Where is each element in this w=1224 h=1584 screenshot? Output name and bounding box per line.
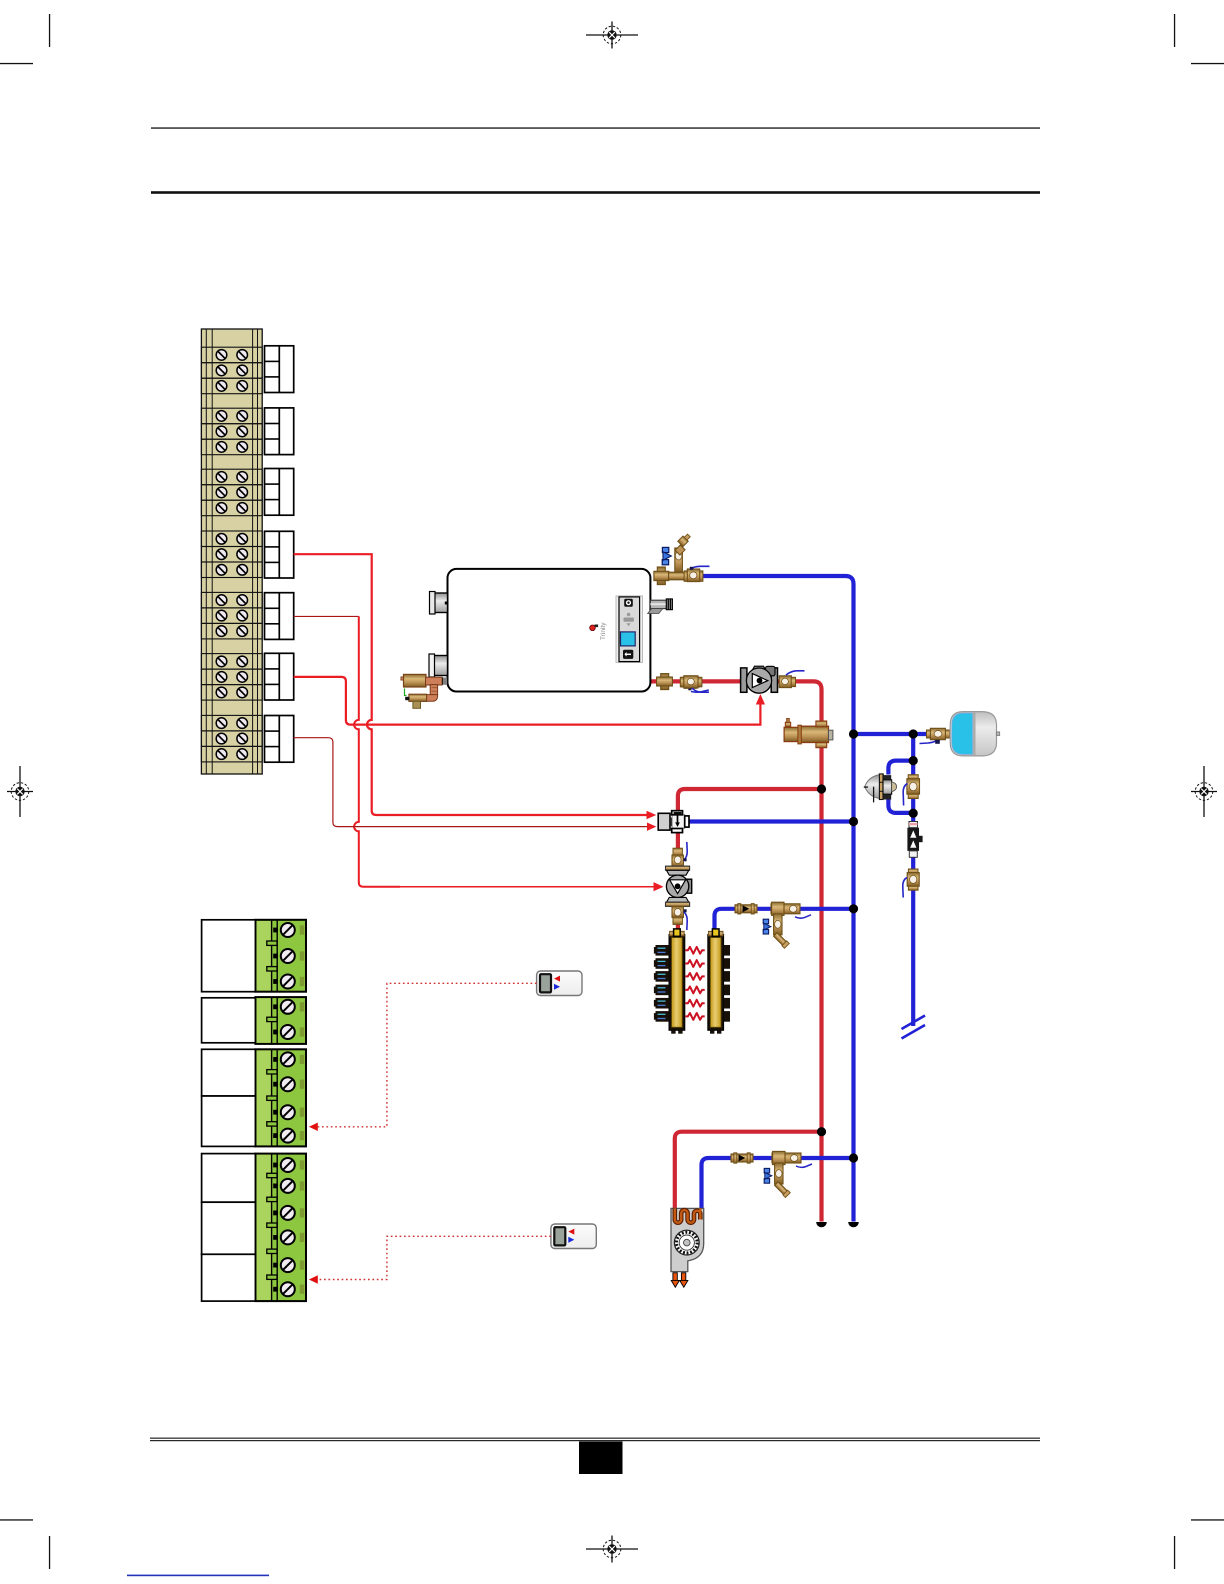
wire zone2 valve vertical xyxy=(354,616,400,886)
boiler control panel xyxy=(616,596,643,663)
expansion tank xyxy=(950,712,1000,756)
zone valve ZV1 actuator xyxy=(658,813,670,830)
red supply branch to fan coil xyxy=(675,1132,822,1209)
terminal group 5 rows and screws xyxy=(201,592,262,639)
wire zone1 pump (box J4 to boiler pump) xyxy=(294,554,647,815)
connector box J5 xyxy=(265,593,294,640)
blue branch manifold return xyxy=(715,909,854,930)
boiler exhaust stub right xyxy=(648,599,673,614)
valve handle annotation top xyxy=(690,566,710,570)
pipe junction node (913.2,760.6) xyxy=(909,756,918,765)
red supply branch to zone valve xyxy=(678,789,822,812)
pump union left xyxy=(680,676,702,688)
connector box J2 xyxy=(265,408,294,455)
panel button xyxy=(623,650,633,659)
footer double rule xyxy=(150,1438,1040,1442)
connector box J3 xyxy=(265,469,294,516)
radiant loops symbol xyxy=(685,947,704,1020)
registration mark right edge xyxy=(1191,766,1217,817)
thermostat terminal block X2 xyxy=(255,997,306,1044)
pressure reducing fill valve xyxy=(864,774,897,803)
zone valve ZV1 body xyxy=(670,811,689,833)
wire zone2 valve (box J5 thin leg) xyxy=(294,615,359,617)
expansion tank valve handle xyxy=(920,740,940,744)
corner crop mark top-right xyxy=(1174,14,1224,64)
return manifold loop stubs xyxy=(724,945,730,1022)
corner crop mark top-left xyxy=(0,14,50,64)
thermostat terminal block X3 xyxy=(255,1049,306,1146)
thermostat T1 wire arrow xyxy=(309,1123,318,1131)
circulator pump P1 xyxy=(741,666,778,693)
boiler body xyxy=(448,569,651,692)
blue cold water drop xyxy=(911,734,915,1026)
pipe junction node (913.2,734) xyxy=(909,729,918,738)
mixing valve union top xyxy=(672,848,683,866)
connector box J7 xyxy=(265,716,294,763)
panel burner icon xyxy=(624,613,634,627)
wire pump arrow xyxy=(756,694,765,705)
wire boiler pump (box J6 to pump arrow) xyxy=(294,677,761,725)
footer blue underline xyxy=(127,1575,269,1577)
boiler vent stub lower-left xyxy=(429,654,448,677)
pump union right xyxy=(779,676,795,688)
terminal group 7 rows and screws xyxy=(201,715,262,762)
panel indicator round xyxy=(624,599,633,607)
blue branch zone valve return xyxy=(689,819,854,823)
check valve fan coil return xyxy=(731,1153,753,1163)
terminal strip TB1 body xyxy=(201,329,262,774)
backflow preventer xyxy=(907,822,922,858)
fill riser pipe with valve xyxy=(675,548,683,572)
registration mark top center xyxy=(586,22,638,49)
registration mark left edge xyxy=(7,766,33,817)
blue return pipe boiler top to main drop xyxy=(702,576,854,1222)
terminal group 2 rows and screws xyxy=(201,408,262,455)
wire zone2 arrow at mixing valve xyxy=(654,882,664,891)
wire zone1 arrow at zone valve top xyxy=(647,811,657,820)
terminal block X1 connector shell xyxy=(202,920,256,992)
boiler isolation valve bottom xyxy=(681,676,699,688)
wire zone3 (box J7 to zone valve bottom) xyxy=(294,738,647,827)
boiler outlet cross fitting bottom xyxy=(657,674,673,690)
pipe junction node (853.5,821.5) xyxy=(849,817,858,826)
header rule thick xyxy=(151,191,1040,194)
red main end cap xyxy=(816,1222,827,1227)
fan coil airflow arrows xyxy=(671,1273,688,1287)
terminal block X3 connector shells xyxy=(202,1049,256,1146)
expansion tank valve xyxy=(927,728,950,739)
corner crop mark bottom-right xyxy=(1174,1519,1224,1569)
boiler vent stub upper-left xyxy=(430,592,448,615)
terminal strip TB1 rail lines xyxy=(206,329,257,774)
check valve manifold return xyxy=(735,904,757,914)
svg-text:Trinity: Trinity xyxy=(600,622,607,640)
mixing valve MV1 xyxy=(666,866,692,906)
terminal block X4 connector shells xyxy=(202,1154,256,1302)
supply manifold loop stubs xyxy=(654,945,669,1022)
thermostat T1 xyxy=(537,971,582,996)
pipe junction node (853.5,734) xyxy=(849,729,858,738)
terminal block X2 connector shell xyxy=(202,998,256,1043)
header rule thin xyxy=(151,127,1040,128)
pipe junction node (821.5,789) xyxy=(817,784,826,793)
red pipe mixing valve to manifold xyxy=(676,906,680,932)
purge drain tee fan coil return xyxy=(764,1151,812,1197)
purge drain tee manifold return xyxy=(763,902,811,948)
fill riser 45 elbow cap xyxy=(675,533,691,555)
red pipe zone valve to mixing valve xyxy=(676,832,680,867)
boiler sight glass xyxy=(590,625,598,631)
blue branch to expansion tank xyxy=(854,732,928,736)
air separator xyxy=(784,718,833,747)
thermostat T2 xyxy=(551,1224,596,1249)
fan coil blower wheel xyxy=(674,1230,699,1255)
brass nipple top xyxy=(669,572,685,580)
radiant return manifold xyxy=(708,929,724,1034)
mixing valve handle bottom xyxy=(684,909,688,930)
pump handle annotation left xyxy=(692,688,709,692)
connector box J6 xyxy=(265,653,294,700)
terminal group 3 rows and screws xyxy=(201,469,262,516)
cold water shutoff handle xyxy=(903,878,907,898)
corner crop mark bottom-left xyxy=(0,1519,50,1569)
fill bypass valve handle xyxy=(903,784,907,806)
pipe break symbol cold water supply xyxy=(902,1016,926,1039)
panel display window xyxy=(621,632,636,646)
pipe junction node (853.5,1158) xyxy=(849,1153,858,1162)
pipe junction node (821.5,1131.7) xyxy=(817,1127,826,1136)
mixing valve union bottom xyxy=(672,906,683,924)
connector box J1 xyxy=(265,346,294,393)
wire zone3 arrow at zone valve bottom xyxy=(647,823,656,831)
pipe junction node (913.2,813.2) xyxy=(909,809,918,818)
radiant supply manifold xyxy=(669,929,685,1034)
thermostat T2 dashed wire xyxy=(318,1236,551,1279)
thermostat terminal block X1 xyxy=(255,920,306,992)
terminal group 4 rows and screws xyxy=(201,531,262,578)
footer page-number block xyxy=(579,1442,623,1475)
thermostat terminal block X4 xyxy=(255,1154,306,1302)
fan coil heating coil xyxy=(675,1208,701,1222)
valve handle annotation bottom xyxy=(688,687,709,692)
connector box J4 xyxy=(265,531,294,578)
registration mark bottom center xyxy=(586,1536,638,1563)
thermostat T1 dashed wire xyxy=(318,983,537,1127)
cold water shutoff valve xyxy=(907,869,919,890)
fill riser tee handle (blue) xyxy=(662,547,671,564)
pipe junction node (853.5,908.8) xyxy=(849,904,858,913)
pump handle annotation right xyxy=(786,671,805,675)
mixing valve handle top xyxy=(684,842,688,861)
boiler relief valve assembly xyxy=(401,674,448,708)
blue main end cap xyxy=(848,1222,859,1227)
fan coil unit body xyxy=(671,1208,704,1271)
boiler outlet cross fitting top xyxy=(654,567,669,585)
red supply pipe boiler to main riser xyxy=(650,681,822,1221)
blue branch fan coil return xyxy=(702,1158,854,1209)
blue fill bypass loop xyxy=(888,761,913,813)
terminal group 6 rows and screws xyxy=(201,654,262,701)
thermostat T2 wire arrow xyxy=(309,1275,318,1283)
fill bypass ball valve xyxy=(907,775,920,799)
boiler isolation valve top xyxy=(684,569,703,582)
terminal group 1 rows and screws xyxy=(201,347,262,394)
